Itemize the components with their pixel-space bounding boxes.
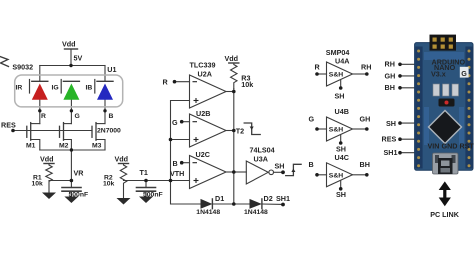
svg-text:U2C: U2C: [196, 150, 210, 159]
svg-text:S&H: S&H: [329, 172, 343, 179]
svg-text:R: R: [315, 63, 321, 72]
svg-text:G: G: [172, 118, 178, 127]
svg-text:B: B: [309, 160, 314, 169]
svg-text:IB: IB: [86, 85, 93, 92]
svg-text:B: B: [109, 113, 114, 120]
svg-text:B: B: [173, 159, 178, 168]
svg-text:T1: T1: [140, 168, 148, 177]
svg-text:VIN GND RST 5V: VIN GND RST 5V: [428, 142, 474, 151]
svg-text:U4A: U4A: [335, 57, 349, 66]
svg-text:U2B: U2B: [196, 109, 210, 118]
svg-text:500nF: 500nF: [143, 192, 163, 199]
svg-text:V3.x: V3.x: [431, 70, 446, 79]
svg-text:2N7000: 2N7000: [97, 128, 121, 135]
svg-text:Vdd: Vdd: [225, 54, 239, 63]
svg-text:SH1: SH1: [276, 194, 290, 203]
svg-text:G: G: [461, 69, 467, 78]
svg-text:SH1: SH1: [384, 148, 398, 157]
svg-text:VTH: VTH: [170, 169, 184, 178]
svg-text:Vdd: Vdd: [62, 40, 76, 49]
svg-text:G: G: [75, 113, 80, 120]
svg-text:1N4148: 1N4148: [244, 209, 268, 216]
svg-text:GH: GH: [385, 71, 396, 80]
svg-text:GH: GH: [360, 115, 371, 124]
svg-text:R: R: [163, 78, 169, 87]
svg-text:74LS04: 74LS04: [250, 146, 275, 155]
svg-text:RH: RH: [385, 60, 395, 69]
svg-text:IR: IR: [16, 85, 23, 92]
svg-text:SH: SH: [275, 162, 285, 171]
svg-text:U2A: U2A: [198, 70, 212, 79]
svg-text:RES: RES: [1, 121, 16, 130]
svg-text:VR: VR: [74, 169, 85, 178]
svg-text:SH: SH: [336, 190, 346, 199]
svg-text:U4C: U4C: [335, 153, 349, 162]
svg-text:BH: BH: [385, 83, 395, 92]
svg-text:T2: T2: [236, 127, 244, 136]
svg-text:U4B: U4B: [335, 107, 349, 116]
svg-text:U3A: U3A: [254, 155, 268, 164]
svg-text:TLC339: TLC339: [190, 61, 216, 70]
svg-text:D2: D2: [264, 194, 273, 203]
svg-text:D1: D1: [215, 194, 224, 203]
svg-text:G: G: [309, 115, 315, 124]
svg-text:SH: SH: [335, 92, 345, 101]
svg-text:Vdd: Vdd: [115, 155, 129, 164]
svg-text:R: R: [41, 113, 46, 120]
svg-text:Vdd: Vdd: [40, 155, 54, 164]
svg-text:10k: 10k: [32, 181, 44, 188]
svg-text:BH: BH: [360, 160, 370, 169]
svg-text:IG: IG: [52, 85, 59, 92]
svg-text:SH: SH: [386, 119, 396, 128]
svg-text:5V: 5V: [74, 54, 83, 63]
svg-text:10k: 10k: [103, 181, 115, 188]
svg-text:10k: 10k: [241, 80, 253, 89]
svg-text:M3: M3: [92, 143, 102, 150]
svg-text:M1: M1: [26, 143, 36, 150]
svg-text:500nF: 500nF: [69, 192, 89, 199]
svg-text:U1: U1: [107, 65, 116, 74]
svg-text:PC LINK: PC LINK: [430, 210, 460, 219]
svg-text:S&H: S&H: [329, 72, 343, 79]
svg-text:S&H: S&H: [329, 127, 343, 134]
svg-text:1N4148: 1N4148: [196, 209, 220, 216]
svg-text:RES: RES: [382, 134, 397, 143]
svg-text:RH: RH: [361, 63, 371, 72]
svg-text:M2: M2: [59, 143, 69, 150]
svg-text:S9032: S9032: [12, 63, 33, 72]
